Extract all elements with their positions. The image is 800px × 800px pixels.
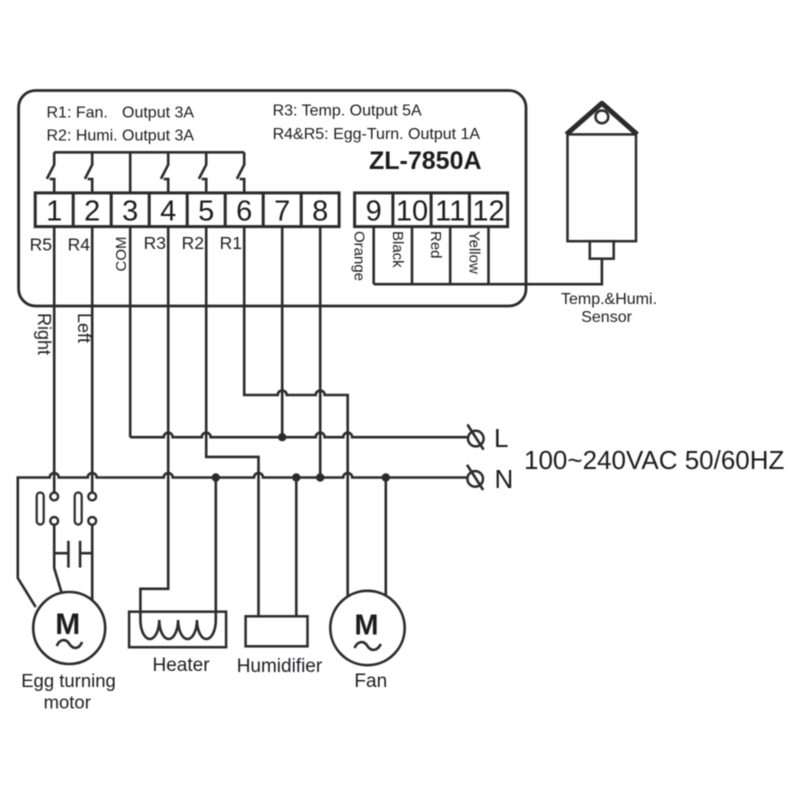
wire right switch to motor bbox=[54, 525, 62, 596]
svg-text:7: 7 bbox=[274, 196, 290, 228]
svg-text:Orange: Orange bbox=[351, 231, 368, 281]
relay bus bbox=[54, 151, 244, 154]
egg turning motor M1 bbox=[33, 592, 105, 664]
humidifier right lead bbox=[295, 478, 298, 617]
svg-text:Yellow: Yellow bbox=[466, 231, 483, 274]
sensor wire stub terminal 12 bbox=[487, 227, 490, 285]
terminal strip 9-12 bbox=[355, 193, 508, 227]
left limit switch body bbox=[75, 493, 82, 525]
junction fan on N line bbox=[382, 473, 390, 481]
svg-text:3: 3 bbox=[122, 196, 138, 228]
label R2: Humi. Output 3A bbox=[47, 128, 195, 145]
svg-text:N: N bbox=[495, 464, 514, 494]
left limit switch top contact bbox=[88, 493, 96, 501]
svg-text:L: L bbox=[494, 423, 508, 453]
svg-text:R4&R5: Egg-Turn. Output 1A: R4&R5: Egg-Turn. Output 1A bbox=[273, 126, 481, 143]
svg-text:R5: R5 bbox=[30, 235, 52, 255]
right limit switch body bbox=[37, 493, 44, 525]
wire terminal7 to L line bbox=[281, 227, 284, 438]
sensor roof bbox=[566, 103, 637, 134]
svg-text:8: 8 bbox=[312, 196, 328, 228]
capacitor C1 right plate bbox=[79, 541, 82, 568]
motor M1 tilde bbox=[57, 640, 82, 648]
fan M2 tilde bbox=[355, 642, 381, 650]
COM wire (terminal 3) bbox=[129, 152, 132, 193]
junction humidifier on N line bbox=[292, 473, 300, 481]
terminal strip 1-8 bbox=[35, 193, 339, 227]
svg-text:5: 5 bbox=[198, 196, 214, 228]
svg-text:Black: Black bbox=[389, 231, 406, 268]
N line bbox=[18, 473, 468, 607]
svg-text:10: 10 bbox=[396, 196, 428, 228]
wire terminal8 to N line bbox=[319, 227, 322, 478]
wire terminal3 COM to L line bbox=[129, 227, 132, 438]
svg-text:Right: Right bbox=[34, 313, 54, 355]
svg-text:Sensor: Sensor bbox=[581, 309, 632, 326]
svg-text:100~240VAC 50/60HZ: 100~240VAC 50/60HZ bbox=[524, 445, 785, 475]
svg-text:Egg turning: Egg turning bbox=[21, 670, 116, 691]
relay contact K2 (terminal 5) bbox=[199, 152, 206, 193]
relay contact K4 (terminal 2) bbox=[85, 152, 92, 193]
L line bbox=[130, 433, 468, 438]
svg-text:COM: COM bbox=[113, 237, 130, 272]
sensor connector bbox=[590, 241, 614, 259]
svg-text:R3: R3 bbox=[144, 233, 166, 253]
svg-text:R3: Temp. Output 5A: R3: Temp. Output 5A bbox=[273, 103, 422, 120]
svg-text:12: 12 bbox=[472, 196, 504, 228]
wire terminal5 R2 to humidifier bbox=[206, 227, 258, 617]
svg-text:Output 3A: Output 3A bbox=[122, 128, 194, 145]
wire terminal6 R1 to fan bbox=[244, 227, 348, 597]
left limit switch bottom contact bbox=[88, 517, 96, 525]
svg-text:R1: Fan.: R1: Fan. bbox=[47, 105, 108, 122]
fan right lead bbox=[384, 478, 387, 599]
sensor cable bbox=[374, 259, 602, 285]
relay contact K1 (terminal 6) bbox=[237, 152, 244, 193]
svg-text:M: M bbox=[55, 608, 80, 641]
junction heater on N line bbox=[212, 473, 220, 481]
L supply terminal bbox=[467, 425, 483, 450]
svg-text:M: M bbox=[354, 610, 378, 642]
svg-text:R4: R4 bbox=[68, 235, 91, 255]
svg-text:4: 4 bbox=[160, 196, 176, 228]
fan motor M2 bbox=[330, 591, 404, 665]
svg-text:Heater: Heater bbox=[153, 655, 211, 676]
right limit switch bottom contact bbox=[50, 517, 58, 525]
sensor body bbox=[568, 134, 637, 241]
svg-text:9: 9 bbox=[366, 196, 382, 228]
N supply terminal bbox=[467, 465, 483, 490]
relay contact K5 (terminal 1) bbox=[47, 152, 54, 193]
svg-text:Fan: Fan bbox=[354, 671, 387, 692]
capacitor C1 left plate bbox=[67, 541, 70, 568]
svg-text:Output 3A: Output 3A bbox=[122, 105, 194, 122]
capacitor C1 right lead bbox=[80, 552, 92, 555]
junction terminal7 on L line bbox=[278, 433, 286, 441]
capacitor C1 left lead bbox=[54, 552, 68, 555]
sensor hanging hole bbox=[596, 111, 609, 124]
svg-text:Humidifier: Humidifier bbox=[237, 656, 323, 677]
svg-text:6: 6 bbox=[236, 196, 252, 228]
svg-text:11: 11 bbox=[435, 196, 465, 228]
right limit switch top contact bbox=[50, 493, 58, 501]
label R1: Fan. Output 3A bbox=[47, 105, 195, 122]
sensor wire stub terminal 9 bbox=[372, 227, 375, 285]
svg-text:R1: R1 bbox=[220, 233, 242, 253]
heater element coil bbox=[140, 478, 215, 640]
wire terminal1 R5 to right switch bbox=[53, 227, 56, 493]
relay contact K3 (terminal 4) bbox=[161, 152, 168, 193]
svg-text:Temp.&Humi.: Temp.&Humi. bbox=[561, 291, 657, 308]
svg-text:R2: R2 bbox=[182, 233, 204, 253]
heater box bbox=[129, 612, 226, 648]
wire terminal2 R4 to left switch bbox=[91, 227, 94, 493]
wire left switch to motor bbox=[91, 525, 94, 601]
svg-text:Red: Red bbox=[427, 231, 444, 259]
svg-text:1: 1 bbox=[46, 196, 62, 228]
wire terminal4 R3 to heater bbox=[140, 227, 168, 620]
humidifier box bbox=[246, 616, 308, 646]
svg-text:motor: motor bbox=[44, 692, 91, 713]
controller outline box bbox=[19, 91, 526, 307]
sensor wire stub terminal 11 bbox=[449, 227, 452, 285]
sensor wire stub terminal 10 bbox=[411, 227, 414, 285]
junction terminal8 on N line bbox=[316, 473, 324, 481]
svg-text:2: 2 bbox=[84, 196, 100, 228]
svg-text:R2: Humi.: R2: Humi. bbox=[47, 128, 118, 145]
svg-text:ZL-7850A: ZL-7850A bbox=[369, 147, 482, 175]
